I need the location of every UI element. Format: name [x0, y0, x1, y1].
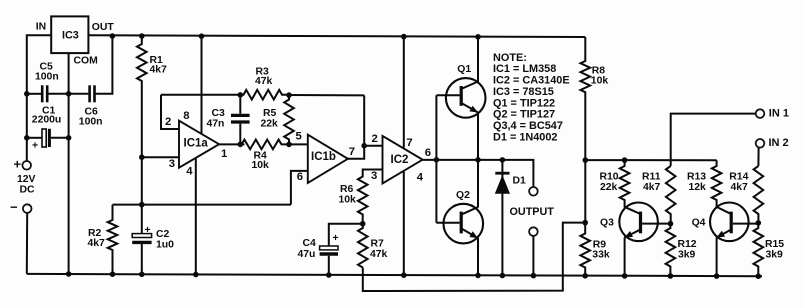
transistor Q1 [446, 78, 486, 118]
svg-text:6: 6 [297, 171, 303, 183]
resistor R4 [240, 140, 289, 150]
svg-text:NOTE:: NOTE: [493, 52, 527, 64]
wire C5 left [27, 93, 41, 95]
node Q4 base junction [756, 220, 762, 226]
resistor R2 [108, 205, 118, 275]
node gnd dot ic2 pin4 [401, 272, 407, 278]
wire q3 emitter [624, 237, 626, 276]
svg-text:4: 4 [186, 165, 193, 177]
svg-text:4k7: 4k7 [150, 65, 168, 76]
node C1 left junction [24, 135, 30, 141]
resistor R13 [712, 160, 722, 207]
resistor R12 [666, 224, 676, 276]
node gnd dot Q4 [714, 273, 720, 279]
wire C1 right [51, 137, 69, 139]
svg-text:OUT: OUT [92, 22, 115, 33]
svg-text:12k: 12k [689, 182, 707, 193]
wire bias horizontal [113, 204, 291, 206]
node gnd dot Q2 [475, 273, 481, 279]
wire q4 base lead [733, 223, 759, 225]
wire q3 base lead [642, 223, 670, 225]
svg-text:3k9: 3k9 [766, 250, 784, 261]
op-amp IC1b [308, 135, 348, 183]
wire ic2 pin3 bend [363, 170, 383, 176]
capacitor C6 [88, 85, 91, 102]
svg-text:47n: 47n [207, 118, 225, 129]
node gnd dot Q3 [622, 273, 628, 279]
svg-text:C4: C4 [303, 238, 317, 249]
resistor R5 [284, 95, 294, 145]
svg-text:4k7: 4k7 [643, 182, 661, 193]
wire pin7 to ic2 pin2 [364, 145, 382, 147]
node C1 right junction [66, 135, 72, 141]
svg-text:+: + [14, 157, 22, 172]
svg-text:6: 6 [425, 147, 431, 159]
wire bases vertical [435, 95, 437, 223]
svg-text:D1 = 1N4002: D1 = 1N4002 [493, 131, 557, 143]
svg-text:10k: 10k [252, 160, 270, 171]
op-amp IC2 [383, 136, 423, 184]
wire minus terminal to ground rail [26, 213, 28, 274]
svg-text:22k: 22k [600, 182, 618, 193]
resistor R1 [137, 36, 147, 234]
resistor R14 [754, 166, 764, 223]
resistor R7 [358, 224, 368, 268]
svg-text:+: + [145, 225, 151, 236]
node bias junction [139, 202, 145, 208]
wire ic2 output [423, 160, 534, 187]
svg-text:5: 5 [296, 130, 302, 142]
wire COM drop and mid column [68, 53, 70, 275]
wire IC3 IN stub [27, 35, 51, 161]
node emitter junction [475, 157, 481, 163]
svg-text:IC1 = LM358: IC1 = LM358 [493, 63, 556, 75]
wire C5 right [48, 93, 68, 95]
svg-text:IC3: IC3 [62, 30, 79, 42]
capacitor C5 [41, 85, 44, 102]
transistor Q3 [619, 203, 658, 242]
wire bottom ground rail [27, 274, 762, 276]
wire q2 base lead [436, 222, 459, 224]
wire pin 4 ground [195, 158, 197, 274]
svg-text:4k7: 4k7 [731, 182, 749, 193]
svg-text:DC: DC [20, 184, 36, 195]
node R4 right junction [286, 142, 292, 148]
node OUTPUT lower terminal [529, 227, 538, 236]
svg-text:Q2 = TIP127: Q2 = TIP127 [493, 109, 555, 121]
svg-text:22k: 22k [261, 118, 279, 129]
node C3 bottom junction [238, 142, 244, 148]
svg-text:Q3,4 = BC547: Q3,4 = BC547 [493, 120, 563, 132]
node R6 R7 junction [360, 221, 366, 227]
svg-text:+: + [32, 140, 38, 151]
svg-text:IN 2: IN 2 [769, 137, 789, 149]
svg-text:47u: 47u [298, 249, 316, 260]
transistor Q4 [710, 203, 749, 242]
diode D1 [501, 160, 503, 276]
svg-text:3: 3 [169, 158, 175, 170]
svg-text:Q2: Q2 [456, 190, 470, 201]
wire pin6 bend [291, 171, 308, 205]
node IN2 terminal [756, 139, 765, 148]
svg-text:IC2: IC2 [391, 154, 409, 166]
wire C6 left [69, 93, 89, 95]
node base junction [434, 157, 440, 163]
wire q1 emitter [477, 112, 479, 160]
wire q1 collector [477, 36, 479, 82]
svg-text:33k: 33k [592, 250, 610, 261]
svg-text:IN 1: IN 1 [769, 107, 789, 119]
svg-text:2: 2 [165, 116, 171, 128]
svg-text:8: 8 [183, 110, 189, 122]
svg-text:IC2 = CA3140E: IC2 = CA3140E [493, 75, 570, 87]
wire pin 3 input [142, 156, 179, 158]
svg-text:+: + [333, 233, 339, 244]
wire pin 8 supply [201, 36, 203, 134]
wire q4 emitter [716, 237, 718, 276]
svg-text:−: − [10, 199, 18, 214]
wire C6 right up to rail [96, 36, 113, 94]
svg-text:IC1a: IC1a [184, 138, 209, 150]
node rail dot Q1 [475, 34, 481, 40]
svg-text:100n: 100n [35, 72, 59, 83]
svg-text:47k: 47k [255, 76, 273, 87]
capacitor C3 [231, 114, 250, 117]
wire pin 1 output [219, 143, 244, 145]
node gnd dot R9 [582, 273, 588, 279]
node OUTPUT upper terminal [529, 187, 538, 196]
svg-text:R15: R15 [765, 239, 784, 250]
node gnd dot pin4 [193, 272, 199, 278]
svg-text:Q1 = TIP122: Q1 = TIP122 [493, 97, 555, 109]
node rail dot R1 [139, 33, 145, 39]
node R8 tap junction [583, 157, 589, 163]
svg-text:OUTPUT: OUTPUT [510, 206, 555, 218]
resistor R8 [581, 37, 591, 223]
resistor R3 [240, 90, 289, 100]
svg-text:COM: COM [74, 56, 98, 67]
svg-text:IN: IN [36, 22, 46, 33]
node IN1 terminal [756, 109, 765, 118]
node gnd dot R12 [668, 273, 674, 279]
transistor Q2 [444, 204, 484, 244]
node rail dot ic2 pin7 [401, 34, 407, 40]
node R3 left junction [238, 92, 244, 98]
resistor R10 [620, 160, 630, 208]
resistor R15 [754, 223, 764, 276]
wire pin7 output bend [348, 95, 364, 158]
svg-text:7: 7 [349, 146, 355, 158]
regulator IC3 [51, 16, 88, 53]
node gnd dot OUT [531, 273, 537, 279]
wire feedback top right [289, 94, 364, 96]
wire ic2 pin4 ground [403, 172, 405, 275]
wire top supply rail [88, 35, 585, 37]
svg-text:2200u: 2200u [32, 115, 61, 126]
node rail dot C6 [110, 33, 116, 39]
svg-text:100n: 100n [79, 117, 103, 128]
node C5/COM junction [66, 91, 72, 97]
node C5 left junction [24, 91, 30, 97]
svg-text:IC3 = 78S15: IC3 = 78S15 [493, 86, 554, 98]
svg-text:Q3: Q3 [600, 217, 614, 228]
wire q2 emitter [477, 238, 479, 275]
wire q2 collector [477, 160, 479, 208]
svg-text:4k7: 4k7 [88, 238, 106, 249]
capacitor C2 polarized [132, 234, 151, 238]
svg-text:3: 3 [371, 170, 377, 182]
node R9 top junction [582, 220, 588, 226]
resistor R11 [666, 166, 676, 224]
op-amp IC1a [179, 121, 219, 168]
wire C1 left [27, 137, 42, 139]
node gnd dot COM [66, 271, 72, 277]
wire pin2 bend [161, 95, 179, 129]
svg-text:1u0: 1u0 [156, 239, 174, 250]
node R1 pin3 junction [139, 154, 145, 160]
svg-text:R12: R12 [678, 239, 697, 250]
capacitor C1 polarized [42, 129, 46, 147]
wire ic2 pin7 supply [403, 36, 405, 147]
svg-text:Q1: Q1 [457, 64, 471, 75]
node gnd dot C2 [139, 272, 145, 278]
wire IN1 [671, 114, 756, 166]
node D1 junction [500, 157, 506, 163]
node R10 top junction [622, 157, 628, 163]
svg-text:10k: 10k [591, 76, 609, 87]
svg-text:2: 2 [372, 133, 378, 145]
wire right feed [585, 159, 716, 161]
node gnd dot R2 [110, 271, 116, 277]
svg-text:IC1b: IC1b [311, 151, 336, 163]
svg-text:7: 7 [406, 137, 412, 149]
node minus terminal [23, 204, 32, 213]
resistor R9 [580, 223, 590, 276]
wire IN2 stub [757, 147, 759, 166]
svg-text:1: 1 [221, 148, 227, 160]
node R3 right junction [286, 92, 292, 98]
node gnd dot C4 [326, 272, 332, 278]
wire feedback return [363, 223, 585, 291]
svg-text:4: 4 [417, 171, 424, 183]
node plus 12V terminal [22, 161, 31, 170]
node rail dot pin8 [199, 33, 205, 39]
node pin2 ic2 junction [361, 143, 367, 149]
wire q1 base lead [436, 94, 459, 96]
wire output lower to ground [532, 236, 534, 276]
node gnd dot D1 [500, 273, 506, 279]
wire feedback top left [161, 94, 240, 96]
svg-text:47k: 47k [370, 249, 388, 260]
wire C4 top link [329, 224, 363, 246]
node gnd dot R15 [756, 273, 762, 279]
svg-text:10k: 10k [339, 194, 357, 205]
svg-text:Q4: Q4 [692, 217, 706, 228]
wire pin5 [289, 143, 308, 145]
capacitor C4 polarized [320, 246, 338, 250]
svg-text:D1: D1 [513, 176, 527, 187]
node Q3 base junction [668, 221, 674, 227]
resistor R6 [358, 175, 368, 224]
svg-text:3k9: 3k9 [678, 250, 696, 261]
